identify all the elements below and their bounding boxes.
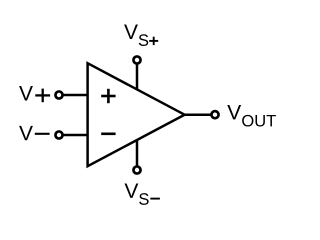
label V+ [19, 86, 33, 100]
wire output [183, 113, 215, 116]
wire negative supply [136, 139, 139, 170]
wire inverting input [59, 134, 89, 137]
label VOUT [227, 105, 276, 127]
op-amp plus marking [101, 89, 115, 103]
label V- [19, 126, 33, 140]
terminal VS+ [133, 56, 140, 63]
label VS+ [124, 25, 148, 46]
terminal V+ [55, 91, 62, 98]
op-amp U1 triangle [88, 63, 185, 166]
terminal VOUT [211, 111, 218, 118]
terminal V- [55, 131, 62, 138]
terminal VS- [133, 166, 140, 173]
label VS- [124, 183, 148, 204]
op-amp minus marking [101, 133, 115, 136]
wire positive supply [136, 60, 139, 91]
wire non-inverting input [59, 94, 89, 97]
